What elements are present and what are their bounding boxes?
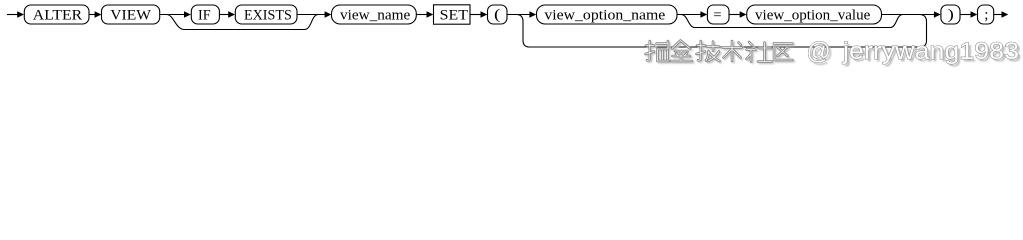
wire ) to ; xyxy=(960,14,971,16)
wire =value bypass merge xyxy=(890,15,903,28)
svg-text:@: @ xyxy=(807,38,831,65)
terminal ; box xyxy=(978,5,994,24)
svg-text:ALTER: ALTER xyxy=(33,8,82,24)
svg-text:): ) xyxy=(948,7,954,23)
wire view_option_value to ) xyxy=(882,14,935,16)
svg-text:jerrywang1983: jerrywang1983 xyxy=(842,38,1019,65)
svg-text:(: ( xyxy=(494,7,500,23)
svg-text:=: = xyxy=(713,8,721,24)
arrowhead into EXISTS xyxy=(228,11,235,17)
svg-text:view_name: view_name xyxy=(340,8,411,24)
arrowhead final xyxy=(1002,11,1009,17)
watermark hanzi shadow xyxy=(647,42,794,63)
wire IF-EXISTS bypass fork xyxy=(167,15,185,30)
arrowhead into view_option_value xyxy=(740,11,747,17)
arrowhead into ; xyxy=(971,11,978,17)
wire EXISTS to view_name xyxy=(297,14,326,16)
arrowhead into ALTER xyxy=(17,11,24,17)
svg-text:view_option_name: view_option_name xyxy=(544,8,665,24)
arrowhead into SET xyxy=(427,11,434,17)
wire IF to EXISTS xyxy=(219,14,229,16)
watermark hanzi core xyxy=(646,41,793,62)
wire =value bypass fork xyxy=(681,15,695,28)
svg-text:SET: SET xyxy=(440,8,468,24)
terminal VIEW box xyxy=(102,5,160,24)
terminal = box xyxy=(707,5,729,24)
wire option loop bottom line xyxy=(530,46,921,48)
arrowhead into ( xyxy=(481,11,488,17)
arrowhead into view_option_name xyxy=(529,11,536,17)
arrowhead into = xyxy=(700,11,707,17)
watermark latin shadow xyxy=(807,38,1022,68)
terminal ( box xyxy=(488,5,508,24)
wire SET to ( xyxy=(470,14,481,16)
wire = to view_option_value xyxy=(729,14,740,16)
wire VIEW to IF xyxy=(160,14,184,16)
wire =value bypass line xyxy=(695,27,890,29)
svg-text:EXISTS: EXISTS xyxy=(244,8,292,24)
wire IF-EXISTS bypass merge xyxy=(305,15,319,30)
wire ( to view_option_name xyxy=(507,14,530,16)
wire option loop left drop xyxy=(517,15,530,48)
arrowhead into IF xyxy=(184,11,191,17)
terminal ) box xyxy=(941,5,960,24)
watermark hanzi rim xyxy=(646,41,793,62)
terminal EXISTS box xyxy=(235,5,297,24)
wire IF-EXISTS bypass line xyxy=(185,29,305,31)
wire view_name to SET xyxy=(416,14,427,16)
svg-text:IF: IF xyxy=(198,8,211,24)
nonterminal view_option_value box xyxy=(747,5,882,24)
wire option loop right rise xyxy=(920,15,927,48)
svg-text:;: ; xyxy=(984,7,988,23)
wire ALTER to VIEW xyxy=(89,14,95,16)
terminal IF box xyxy=(191,5,219,24)
wire ; to end xyxy=(994,14,1002,16)
svg-text:view_option_value: view_option_value xyxy=(755,8,871,24)
arrowhead into VIEW xyxy=(95,11,102,17)
terminal ALTER box xyxy=(24,5,89,24)
nonterminal view_name box xyxy=(332,5,417,24)
svg-text:VIEW: VIEW xyxy=(110,8,152,24)
nonterminal view_option_name box xyxy=(537,5,678,24)
terminal SET box (square) xyxy=(434,5,471,24)
arrowhead into ) xyxy=(934,11,941,17)
watermark xyxy=(646,38,1022,68)
wire lead-in xyxy=(7,14,18,16)
wire view_option_name to = xyxy=(677,14,701,16)
arrowhead into view_name xyxy=(325,11,332,17)
